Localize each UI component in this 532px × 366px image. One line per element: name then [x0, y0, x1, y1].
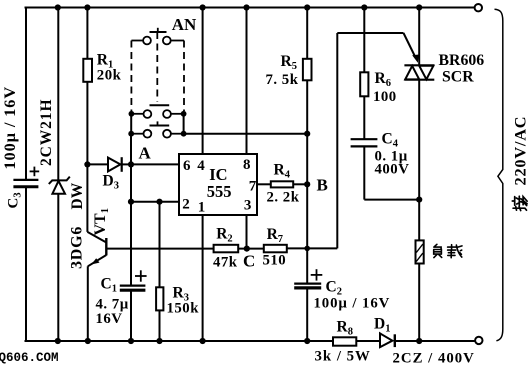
wire base to R2	[106, 248, 213, 250]
capacitor C2	[294, 269, 322, 288]
node bottom rail emitter	[85, 338, 91, 344]
wire R1 to D3 node	[86, 82, 88, 165]
svg-text:A: A	[139, 144, 152, 163]
node bottom rail pin1	[200, 338, 206, 344]
wire gate riser	[336, 33, 338, 248]
wire pin7 stub	[257, 183, 271, 185]
label fu (load) hanzi	[434, 244, 442, 257]
svg-text:47k: 47k	[213, 255, 238, 271]
wire pin6 stub	[131, 163, 179, 165]
svg-text:4: 4	[197, 158, 205, 174]
capacitor C3	[13, 167, 39, 187]
wire C1 column upper	[130, 202, 132, 286]
label zai (load) hanzi	[448, 245, 462, 258]
wire node A down to pin2 level	[130, 164, 132, 201]
op IC 555 box	[179, 154, 257, 215]
brace 220V AC	[495, 9, 503, 341]
svg-text:3k / 5W: 3k / 5W	[315, 349, 371, 365]
resistor R8	[333, 337, 356, 345]
wire bottom rail left segment	[26, 340, 334, 342]
svg-text:1: 1	[198, 199, 206, 215]
wire C1 column lower	[130, 290, 132, 341]
wire left C3 column upper	[25, 8, 27, 180]
wire R6 to C4	[363, 96, 365, 139]
node bottom rail R3	[156, 338, 162, 344]
load box	[416, 240, 424, 263]
node AN/R5 junction	[304, 131, 310, 137]
node pin2/C1	[128, 199, 134, 205]
node A	[128, 161, 134, 167]
wire node A riser to switch	[130, 134, 132, 165]
wire DW column lower	[57, 194, 59, 341]
svg-text:100µ / 16V: 100µ / 16V	[314, 296, 391, 312]
resistor R7	[264, 245, 287, 253]
node C	[244, 246, 250, 252]
wire R5 column upper	[306, 8, 308, 59]
label jie (connect) hanzi	[512, 196, 527, 210]
svg-text:3DG6: 3DG6	[69, 226, 86, 269]
wire R2 to R7	[238, 248, 264, 250]
resistor R2	[214, 245, 239, 253]
terminal top AC	[475, 4, 482, 11]
wire top rail	[26, 7, 475, 9]
svg-text:DW: DW	[69, 182, 86, 209]
svg-text:100µ / 16V: 100µ / 16V	[0, 86, 19, 170]
capacitor C1	[120, 270, 147, 290]
gate arrowhead	[412, 55, 419, 63]
triac BR606	[404, 65, 434, 79]
node bottom rail load	[416, 338, 422, 344]
capacitor C4	[351, 139, 378, 146]
svg-text:555: 555	[207, 182, 232, 201]
pushbutton AN switch row 3	[131, 121, 183, 137]
node pin2/R3	[156, 199, 162, 205]
svg-text:220V/AC: 220V/AC	[511, 116, 530, 186]
wire pin4 riser	[202, 8, 204, 155]
wire row2-row3 left	[130, 114, 132, 134]
wire emitter down	[87, 266, 89, 341]
wire R3 column lower	[159, 310, 161, 341]
wire pin2 stub	[131, 201, 179, 203]
svg-text:B: B	[317, 176, 328, 195]
wire R4 to node B	[293, 183, 307, 185]
zener diode DW	[49, 177, 70, 194]
wire C2 lower	[306, 288, 308, 341]
node top rail R1	[84, 4, 90, 10]
node top rail SCR	[416, 4, 422, 10]
resistor R1	[83, 59, 92, 82]
node B	[304, 181, 310, 187]
node bottom rail C2	[304, 338, 310, 344]
resistor R5	[303, 59, 312, 81]
svg-text:100: 100	[373, 89, 397, 105]
svg-text:SCR: SCR	[442, 68, 474, 85]
wire SCR column upper	[418, 8, 420, 66]
wire pin8 riser	[246, 8, 248, 155]
node bottom rail DW	[55, 338, 61, 344]
wire R5 node to node B	[306, 134, 308, 185]
node switch row3 left	[128, 131, 134, 137]
svg-text:2. 2k: 2. 2k	[267, 189, 300, 205]
pushbutton AN switch row 2	[131, 105, 183, 118]
wire bottom rail right segment	[395, 340, 475, 342]
wire R6 column upper	[363, 8, 365, 73]
node switch row2 left	[129, 111, 135, 117]
node top rail pin8	[243, 4, 249, 10]
wire gate horizontal	[337, 32, 403, 34]
transistor VT1	[87, 232, 106, 266]
wire left C3 column lower	[25, 187, 27, 341]
wire C4 to SCR column	[364, 199, 419, 201]
dashed linkage right	[183, 41, 185, 112]
node junction R1/D3/VT1	[84, 161, 90, 167]
resistor R6	[360, 72, 368, 96]
wire load lower	[418, 264, 420, 342]
wire R3 column upper	[159, 202, 161, 288]
svg-text:7: 7	[249, 178, 257, 194]
dashed linkage middle	[156, 32, 158, 102]
svg-text:150k: 150k	[167, 301, 200, 317]
svg-text:7. 5k: 7. 5k	[266, 72, 299, 88]
node switch row3 right	[181, 131, 187, 137]
svg-text:AN: AN	[172, 15, 197, 34]
node bottom rail C1	[128, 338, 134, 344]
wire bottom rail mid segment	[356, 340, 380, 342]
svg-text:3: 3	[244, 198, 252, 214]
wire SCR to load	[418, 80, 420, 241]
terminal bottom AC	[475, 337, 482, 344]
wire switch row3 to R5 column	[184, 133, 308, 135]
svg-text:2CW21H: 2CW21H	[38, 99, 55, 166]
node top rail R5	[304, 4, 310, 10]
wire node B down to C2	[306, 184, 308, 283]
pushbutton AN switch row 1	[131, 28, 184, 45]
svg-text:400V: 400V	[375, 162, 410, 178]
wire collector riser	[86, 164, 88, 232]
node top rail pin4	[200, 4, 206, 10]
wire gate diagonal to SCR	[404, 33, 417, 59]
dashed linkage left	[130, 41, 132, 112]
svg-text:C: C	[243, 251, 255, 270]
wire row2-row3 right	[183, 114, 185, 134]
wire pin1 dropper	[202, 215, 204, 341]
svg-text:2: 2	[182, 196, 190, 212]
node C2 crossing	[304, 246, 310, 252]
svg-text:2CZ / 400V: 2CZ / 400V	[393, 351, 475, 366]
wire C4 lower	[363, 146, 365, 199]
resistor R3	[156, 287, 163, 310]
diode D3	[87, 157, 131, 172]
wire R7 to gate riser	[287, 247, 338, 249]
wire pin3 dropper	[246, 215, 248, 249]
svg-text:BR606: BR606	[439, 52, 485, 69]
wire R1 column upper	[86, 8, 88, 59]
diode D1	[380, 333, 395, 347]
node top rail R6	[361, 4, 367, 10]
node C4/SCR junction	[416, 197, 422, 203]
svg-text:20k: 20k	[97, 68, 122, 84]
svg-text:8: 8	[243, 157, 251, 173]
node top rail DW	[55, 4, 61, 10]
wire DW column upper	[57, 8, 59, 181]
svg-text:Q606.COM: Q606.COM	[0, 351, 59, 365]
svg-text:6: 6	[183, 158, 191, 174]
svg-text:510: 510	[263, 253, 287, 269]
resistor R4	[271, 181, 293, 187]
wire R5 to AN node	[306, 80, 308, 133]
node switch row2 right	[181, 111, 187, 117]
svg-text:16V: 16V	[96, 311, 123, 327]
svg-text:IC: IC	[209, 165, 227, 184]
